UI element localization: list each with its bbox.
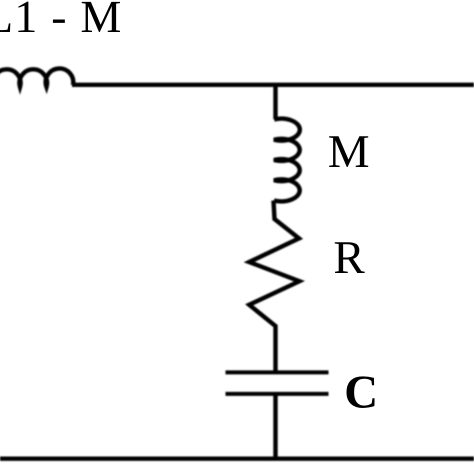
- wire: top rail from L1-M to right edge: [72, 83, 474, 87]
- label C (bold) for capacitor: [346, 376, 374, 408]
- wire: bottom rail across full width: [0, 457, 474, 461]
- resistor R (zigzag) with wire stubs to M and to capacitor: [249, 201, 299, 372]
- inductor L1-M (horizontal coil, clipped at left edge): [0, 68, 73, 87]
- label R for resistor: [335, 242, 365, 273]
- capacitor C top plate: [226, 370, 329, 374]
- label M for vertical inductor: [329, 136, 368, 167]
- wire: capacitor to bottom rail: [273, 394, 277, 459]
- inductor M (vertical coil, 4 turns): [274, 119, 300, 202]
- label "L1 - M" for top-left inductor (clipped at left edge): [0, 2, 120, 32]
- wire: vertical stub from top rail to inductor M: [273, 85, 277, 120]
- capacitor C bottom plate: [226, 392, 329, 396]
